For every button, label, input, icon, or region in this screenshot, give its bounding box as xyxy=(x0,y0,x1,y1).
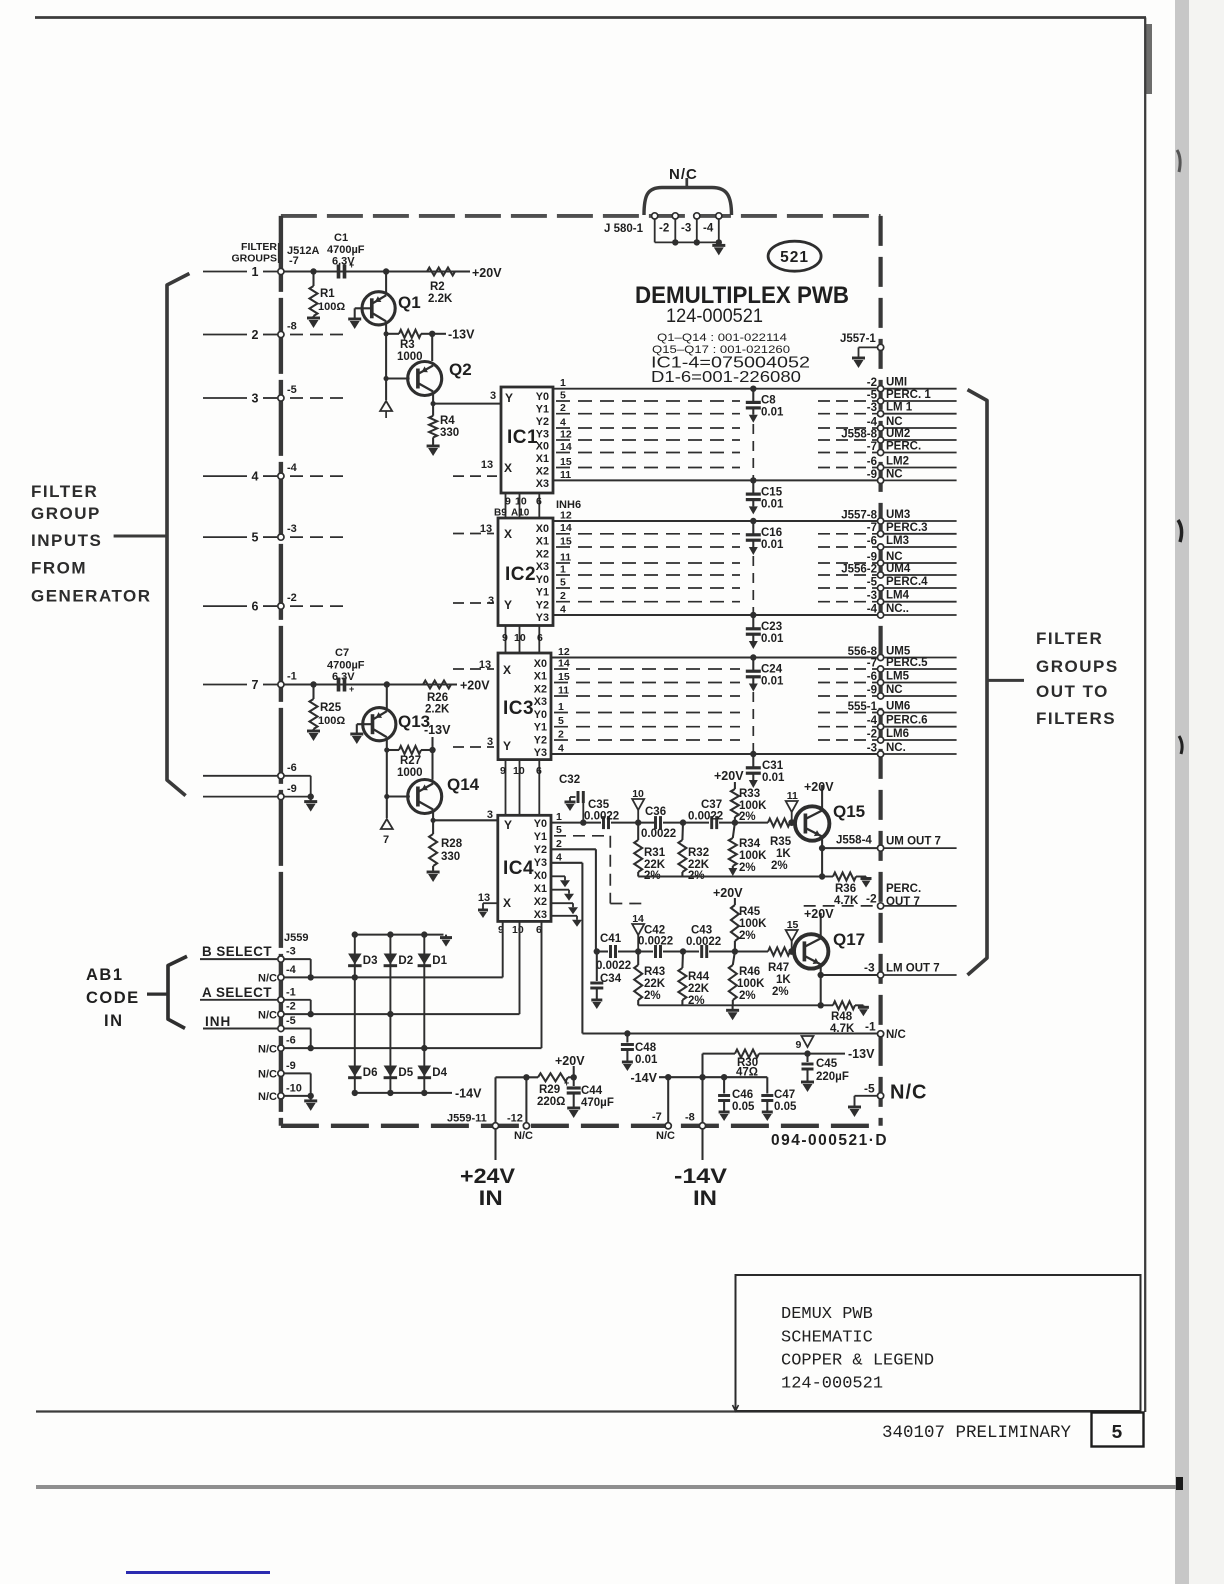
svg-text:D1: D1 xyxy=(432,955,447,967)
svg-text:+24V: +24V xyxy=(460,1165,515,1188)
svg-text:-9: -9 xyxy=(867,469,877,481)
svg-text:12: 12 xyxy=(560,510,572,522)
svg-text:521: 521 xyxy=(780,249,809,266)
svg-text:4: 4 xyxy=(560,417,566,429)
svg-text:R28: R28 xyxy=(441,838,463,850)
svg-text:X1: X1 xyxy=(536,536,549,548)
svg-text:1: 1 xyxy=(560,564,566,576)
svg-text:12: 12 xyxy=(558,646,570,658)
svg-text:330: 330 xyxy=(441,851,460,863)
svg-text:R27: R27 xyxy=(400,755,421,767)
svg-text:N/C: N/C xyxy=(890,1082,927,1104)
svg-text:C16: C16 xyxy=(761,527,782,539)
svg-text:D2: D2 xyxy=(398,955,413,967)
svg-text:J558-8: J558-8 xyxy=(841,429,877,441)
svg-text:-4: -4 xyxy=(867,715,878,727)
svg-text:COPPER & LEGEND: COPPER & LEGEND xyxy=(781,1352,934,1371)
svg-text:-1: -1 xyxy=(865,1020,876,1034)
svg-text:14: 14 xyxy=(560,522,572,534)
svg-text:C8: C8 xyxy=(761,395,776,407)
svg-text:X1: X1 xyxy=(536,453,549,465)
svg-text:0.01: 0.01 xyxy=(761,539,784,551)
svg-text:6: 6 xyxy=(537,632,543,644)
svg-text:Q2: Q2 xyxy=(449,360,472,379)
svg-text:1: 1 xyxy=(560,377,566,389)
svg-text:-1: -1 xyxy=(286,986,296,998)
svg-text:2: 2 xyxy=(560,402,566,414)
svg-text:5: 5 xyxy=(556,824,562,836)
svg-text:-3: -3 xyxy=(867,402,877,414)
svg-text:0.0022: 0.0022 xyxy=(584,811,619,823)
svg-text:R35: R35 xyxy=(770,836,792,848)
svg-text:X: X xyxy=(504,461,512,475)
svg-text:Y: Y xyxy=(503,739,511,753)
svg-text:330: 330 xyxy=(440,427,459,439)
svg-text:1: 1 xyxy=(252,265,259,279)
svg-text:J558-4: J558-4 xyxy=(836,835,872,847)
svg-text:7: 7 xyxy=(252,678,259,692)
svg-text:NC: NC xyxy=(886,416,903,428)
svg-text:220Ω: 220Ω xyxy=(537,1096,565,1108)
svg-text:Q1: Q1 xyxy=(398,293,421,312)
svg-text:-4: -4 xyxy=(867,604,878,616)
svg-text:C48: C48 xyxy=(635,1042,657,1054)
svg-text:-5: -5 xyxy=(864,1082,875,1096)
svg-text:9: 9 xyxy=(796,1039,802,1051)
svg-text:R3: R3 xyxy=(400,339,415,351)
svg-text:3: 3 xyxy=(252,392,259,406)
svg-text:100Ω: 100Ω xyxy=(318,301,345,313)
svg-text:J557-8: J557-8 xyxy=(841,510,877,522)
svg-text:12: 12 xyxy=(560,429,572,441)
svg-text:X: X xyxy=(503,896,511,910)
svg-text:13: 13 xyxy=(478,892,490,904)
svg-text:340107 PRELIMINARY: 340107 PRELIMINARY xyxy=(882,1423,1072,1443)
svg-text:PERC.5: PERC.5 xyxy=(886,657,928,669)
svg-text:PERC.3: PERC.3 xyxy=(886,522,928,534)
svg-text:LM3: LM3 xyxy=(886,535,909,547)
svg-text:4700µF: 4700µF xyxy=(327,244,365,256)
svg-text:-3: -3 xyxy=(867,743,877,755)
svg-text:-3: -3 xyxy=(681,223,691,235)
svg-text:C7: C7 xyxy=(335,647,349,659)
svg-text:X3: X3 xyxy=(534,696,547,708)
svg-text:14: 14 xyxy=(560,441,572,453)
svg-text:6: 6 xyxy=(536,765,542,777)
svg-text:C37: C37 xyxy=(701,799,722,811)
svg-text:C32: C32 xyxy=(559,774,580,786)
svg-text:Y0: Y0 xyxy=(536,391,549,403)
svg-text:+20V: +20V xyxy=(555,1054,585,1068)
svg-text:Y: Y xyxy=(504,598,512,612)
svg-text:-13V: -13V xyxy=(848,1047,875,1061)
svg-text:2: 2 xyxy=(560,590,566,602)
svg-text:Y0: Y0 xyxy=(536,574,549,586)
svg-text:14: 14 xyxy=(558,658,570,670)
svg-text:J512A: J512A xyxy=(287,245,319,257)
svg-text:-6: -6 xyxy=(287,762,297,774)
svg-text:2: 2 xyxy=(252,328,259,342)
svg-text:X1: X1 xyxy=(534,671,547,683)
svg-text:INH: INH xyxy=(205,1014,231,1029)
svg-text:470µF: 470µF xyxy=(581,1097,614,1109)
svg-text:100K: 100K xyxy=(737,978,765,990)
svg-text:R1: R1 xyxy=(320,288,335,300)
svg-text:X1: X1 xyxy=(534,883,547,895)
svg-text:-10: -10 xyxy=(286,1082,302,1094)
svg-text:DEMUX PWB: DEMUX PWB xyxy=(781,1305,873,1324)
svg-text:11: 11 xyxy=(787,790,798,802)
svg-text:X2: X2 xyxy=(534,683,547,695)
svg-text:PERC. 1: PERC. 1 xyxy=(886,389,931,401)
svg-text:2: 2 xyxy=(556,838,562,850)
svg-text:-5: -5 xyxy=(287,384,297,396)
svg-text:Y2: Y2 xyxy=(534,734,547,746)
svg-text:NC: NC xyxy=(886,684,903,696)
svg-text:15: 15 xyxy=(560,536,572,548)
svg-text:R45: R45 xyxy=(739,906,761,918)
svg-text:5: 5 xyxy=(560,390,566,402)
svg-text:-9: -9 xyxy=(286,1060,296,1072)
svg-text:0.0022: 0.0022 xyxy=(688,811,723,823)
svg-text:Y3: Y3 xyxy=(534,747,547,759)
svg-text:LM4: LM4 xyxy=(886,590,910,602)
svg-text:-4: -4 xyxy=(703,223,714,235)
svg-text:FILTER: FILTER xyxy=(241,241,277,253)
svg-text:2.2K: 2.2K xyxy=(428,293,453,305)
svg-text:9: 9 xyxy=(500,765,506,777)
svg-text:-7: -7 xyxy=(652,1111,662,1123)
svg-text:2: 2 xyxy=(558,729,564,741)
svg-text:X3: X3 xyxy=(536,561,549,573)
svg-text:10: 10 xyxy=(632,788,644,800)
svg-text:-5: -5 xyxy=(867,390,878,402)
svg-text:UM6: UM6 xyxy=(886,701,910,713)
svg-text:R46: R46 xyxy=(739,966,760,978)
svg-text:X3: X3 xyxy=(536,478,549,490)
svg-text:OUT TO: OUT TO xyxy=(1036,682,1109,701)
svg-text:N/C: N/C xyxy=(669,166,698,183)
svg-text:124-000521: 124-000521 xyxy=(781,1375,883,1394)
svg-text:-2: -2 xyxy=(867,729,877,741)
svg-text:-9: -9 xyxy=(287,783,297,795)
svg-text:C35: C35 xyxy=(588,799,610,811)
svg-text:2%: 2% xyxy=(772,986,789,998)
svg-text:0.0022: 0.0022 xyxy=(638,936,673,948)
svg-text:-3: -3 xyxy=(286,946,296,958)
svg-text:-9: -9 xyxy=(867,552,877,564)
svg-text:X0: X0 xyxy=(534,870,547,882)
svg-text:-6: -6 xyxy=(867,456,877,468)
svg-text:-14V: -14V xyxy=(674,1165,727,1188)
svg-text:Y3: Y3 xyxy=(536,612,549,624)
svg-text:N/C: N/C xyxy=(258,1091,277,1103)
svg-text:-12: -12 xyxy=(507,1113,523,1125)
svg-text:4: 4 xyxy=(558,743,564,755)
svg-text:IN: IN xyxy=(479,1187,503,1210)
svg-text:-5: -5 xyxy=(286,1015,296,1027)
svg-text:+: + xyxy=(564,1078,569,1088)
svg-text:R48: R48 xyxy=(831,1011,853,1023)
svg-text:-8: -8 xyxy=(287,321,297,333)
svg-text:094-000521·D: 094-000521·D xyxy=(771,1132,888,1149)
svg-text:2%: 2% xyxy=(739,811,756,823)
svg-text:PERC.: PERC. xyxy=(886,441,921,453)
svg-text:22K: 22K xyxy=(644,978,666,990)
svg-text:B SELECT: B SELECT xyxy=(202,944,272,959)
svg-text:-2: -2 xyxy=(867,377,877,389)
svg-text:R26: R26 xyxy=(427,692,448,704)
svg-text:IC3: IC3 xyxy=(503,698,534,719)
svg-text:5: 5 xyxy=(560,577,566,589)
svg-text:Y: Y xyxy=(504,818,512,832)
svg-text:J557-1: J557-1 xyxy=(840,333,876,345)
svg-text:-7: -7 xyxy=(867,658,877,670)
svg-text:4: 4 xyxy=(252,470,259,484)
svg-text:556-8: 556-8 xyxy=(848,646,878,658)
svg-text:13: 13 xyxy=(480,523,492,535)
svg-text:2%: 2% xyxy=(739,990,756,1002)
svg-text:-14V: -14V xyxy=(455,1087,482,1101)
svg-text:13: 13 xyxy=(481,459,493,471)
svg-text:R29: R29 xyxy=(539,1084,560,1096)
svg-text:LM2: LM2 xyxy=(886,456,909,468)
svg-text:+20V: +20V xyxy=(472,266,502,280)
svg-text:+20V: +20V xyxy=(714,769,744,783)
svg-text:R47: R47 xyxy=(768,962,789,974)
svg-text:-9: -9 xyxy=(867,685,877,697)
svg-text:D3: D3 xyxy=(363,955,378,967)
svg-text:GROUP: GROUP xyxy=(31,504,101,523)
svg-text:NC: NC xyxy=(886,468,903,480)
svg-text:N/C: N/C xyxy=(258,1069,277,1081)
svg-text:C47: C47 xyxy=(774,1089,795,1101)
svg-text:-2: -2 xyxy=(286,1001,296,1013)
svg-text:SCHEMATIC: SCHEMATIC xyxy=(781,1329,873,1348)
svg-text:A SELECT: A SELECT xyxy=(202,985,272,1000)
svg-text:0.0022: 0.0022 xyxy=(641,828,676,840)
svg-text:FILTERS: FILTERS xyxy=(1036,709,1116,728)
svg-text:R36: R36 xyxy=(835,883,856,895)
svg-text:X3: X3 xyxy=(534,909,547,921)
svg-text:0.05: 0.05 xyxy=(732,1101,755,1113)
svg-text:Y1: Y1 xyxy=(536,587,549,599)
svg-text:OUT 7: OUT 7 xyxy=(886,896,920,908)
svg-text:UM4: UM4 xyxy=(886,563,911,575)
svg-text:J559-11: J559-11 xyxy=(447,1113,487,1125)
svg-text:D4: D4 xyxy=(432,1067,447,1079)
svg-text:10: 10 xyxy=(515,496,527,508)
svg-text:Y1: Y1 xyxy=(534,722,547,734)
svg-text:9: 9 xyxy=(505,496,511,508)
svg-text:1K: 1K xyxy=(776,974,791,986)
svg-text:FILTER: FILTER xyxy=(31,482,98,501)
svg-text:3: 3 xyxy=(490,390,496,402)
svg-text:+: + xyxy=(349,260,354,270)
svg-text:3: 3 xyxy=(487,809,493,821)
svg-text:Y0: Y0 xyxy=(534,818,547,830)
svg-text:C23: C23 xyxy=(761,621,782,633)
svg-text:+: + xyxy=(349,684,354,694)
svg-text:B9: B9 xyxy=(494,508,507,519)
svg-text:100K: 100K xyxy=(739,850,767,862)
svg-text:5: 5 xyxy=(558,715,564,727)
svg-text:Y2: Y2 xyxy=(536,599,549,611)
svg-text:C1: C1 xyxy=(334,232,348,244)
svg-text:2%: 2% xyxy=(644,990,661,1002)
svg-text:47Ω: 47Ω xyxy=(736,1067,758,1079)
svg-text:5: 5 xyxy=(252,531,259,545)
svg-text:IC4: IC4 xyxy=(503,858,534,879)
svg-text:-7: -7 xyxy=(867,522,877,534)
svg-text:13: 13 xyxy=(479,659,491,671)
svg-text:R2: R2 xyxy=(430,281,445,293)
svg-text:GROUPS: GROUPS xyxy=(1036,657,1119,676)
svg-text:5: 5 xyxy=(1111,1422,1122,1444)
svg-text:-6: -6 xyxy=(867,671,877,683)
svg-text:2%: 2% xyxy=(771,860,788,872)
svg-text:3: 3 xyxy=(487,736,493,748)
svg-text:J 580-1: J 580-1 xyxy=(604,223,644,235)
svg-text:0.0022: 0.0022 xyxy=(596,960,631,972)
svg-text:LM OUT 7: LM OUT 7 xyxy=(886,963,940,975)
svg-text:Y3: Y3 xyxy=(536,428,549,440)
svg-text:Y0: Y0 xyxy=(534,709,547,721)
svg-text:IN: IN xyxy=(693,1187,717,1210)
svg-text:LM6: LM6 xyxy=(886,728,909,740)
svg-text:10: 10 xyxy=(513,765,525,777)
svg-text:Y1: Y1 xyxy=(534,831,547,843)
svg-text:11: 11 xyxy=(560,469,571,481)
svg-text:Y2: Y2 xyxy=(536,416,549,428)
svg-text:10: 10 xyxy=(512,924,524,936)
svg-text:C24: C24 xyxy=(761,664,783,676)
svg-text:D6: D6 xyxy=(363,1067,378,1079)
svg-text:0.01: 0.01 xyxy=(761,498,784,510)
svg-text:10: 10 xyxy=(514,632,526,644)
svg-text:FROM: FROM xyxy=(31,559,87,578)
svg-text:NC: NC xyxy=(886,551,903,563)
svg-text:0.01: 0.01 xyxy=(761,676,784,688)
svg-text:-4: -4 xyxy=(286,964,297,976)
svg-text:NC.: NC. xyxy=(886,742,906,754)
svg-text:UM3: UM3 xyxy=(886,509,910,521)
svg-text:+20V: +20V xyxy=(460,679,490,693)
svg-text:2%: 2% xyxy=(739,862,756,874)
svg-text:X2: X2 xyxy=(536,548,549,560)
svg-text:D5: D5 xyxy=(398,1067,413,1079)
svg-text:C41: C41 xyxy=(600,933,622,945)
svg-text:J559: J559 xyxy=(284,932,308,944)
svg-text:R31: R31 xyxy=(644,847,666,859)
svg-text:-3: -3 xyxy=(287,523,297,535)
svg-text:Y2: Y2 xyxy=(534,844,547,856)
svg-text:1: 1 xyxy=(556,811,562,823)
svg-text:X2: X2 xyxy=(536,466,549,478)
svg-text:R43: R43 xyxy=(644,966,665,978)
svg-text:GENERATOR: GENERATOR xyxy=(31,587,152,606)
svg-text:NC..: NC.. xyxy=(886,603,909,615)
svg-text:Y3: Y3 xyxy=(534,857,547,869)
svg-text:4700µF: 4700µF xyxy=(327,660,365,672)
svg-text:X2: X2 xyxy=(534,896,547,908)
svg-text:C46: C46 xyxy=(732,1089,753,1101)
svg-text:6: 6 xyxy=(536,496,542,508)
svg-text:CODE: CODE xyxy=(86,989,140,1007)
svg-text:D1-6=001-226080: D1-6=001-226080 xyxy=(651,369,801,386)
svg-text:+20V: +20V xyxy=(713,886,743,900)
svg-text:R34: R34 xyxy=(739,838,761,850)
svg-text:AB1: AB1 xyxy=(86,966,124,984)
svg-text:-14V: -14V xyxy=(631,1071,658,1085)
svg-text:22K: 22K xyxy=(688,983,710,995)
svg-text:220µF: 220µF xyxy=(816,1071,849,1083)
svg-text:X0: X0 xyxy=(536,523,549,535)
svg-text:1: 1 xyxy=(558,701,564,713)
svg-text:100K: 100K xyxy=(739,918,767,930)
svg-text:R4: R4 xyxy=(440,415,455,427)
svg-text:J556-2: J556-2 xyxy=(841,564,877,576)
svg-text:0.01: 0.01 xyxy=(762,772,785,784)
svg-text:PERC.4: PERC.4 xyxy=(886,576,928,588)
svg-text:-3: -3 xyxy=(864,961,875,975)
svg-text:Q15: Q15 xyxy=(833,802,865,821)
svg-text:X: X xyxy=(504,527,512,541)
svg-text:PERC.6: PERC.6 xyxy=(886,715,928,727)
svg-text:-13V: -13V xyxy=(424,723,451,737)
svg-text:124-000521: 124-000521 xyxy=(666,305,763,327)
svg-text:+20V: +20V xyxy=(804,780,834,794)
svg-text:-2: -2 xyxy=(866,892,877,906)
svg-text:-1: -1 xyxy=(287,671,297,683)
svg-text:15: 15 xyxy=(787,919,799,931)
svg-text:9: 9 xyxy=(502,632,508,644)
svg-text:3: 3 xyxy=(488,595,494,607)
svg-text:Y: Y xyxy=(505,391,513,405)
svg-text:4: 4 xyxy=(556,852,562,864)
svg-text:-2: -2 xyxy=(287,592,297,604)
svg-text:+20V: +20V xyxy=(804,907,834,921)
svg-text:-6: -6 xyxy=(286,1035,296,1047)
svg-text:-13V: -13V xyxy=(448,328,475,342)
svg-text:UM OUT 7: UM OUT 7 xyxy=(886,836,941,848)
svg-text:-4: -4 xyxy=(867,417,878,429)
svg-text:11: 11 xyxy=(560,552,571,564)
svg-text:-4: -4 xyxy=(287,462,298,474)
svg-text:-7: -7 xyxy=(867,441,877,453)
svg-text:N/C: N/C xyxy=(258,1010,277,1022)
svg-text:555-1: 555-1 xyxy=(848,701,878,713)
svg-text:R25: R25 xyxy=(320,702,342,714)
svg-text:X: X xyxy=(503,663,511,677)
svg-text:IC1: IC1 xyxy=(507,427,538,448)
svg-text:-6: -6 xyxy=(867,536,877,548)
svg-text:Q17: Q17 xyxy=(833,930,865,949)
svg-text:IC2: IC2 xyxy=(505,564,536,585)
svg-text:1K: 1K xyxy=(776,848,791,860)
svg-text:11: 11 xyxy=(558,685,569,697)
svg-text:15: 15 xyxy=(558,671,570,683)
svg-text:0.01: 0.01 xyxy=(761,407,784,419)
svg-text:R32: R32 xyxy=(688,847,709,859)
svg-text:LM5: LM5 xyxy=(886,671,910,683)
svg-text:N/C: N/C xyxy=(514,1130,533,1142)
svg-text:UMI: UMI xyxy=(886,377,907,389)
svg-text:0.0022: 0.0022 xyxy=(686,936,721,948)
svg-text:C34: C34 xyxy=(600,973,622,985)
svg-text:PERC.: PERC. xyxy=(886,883,921,895)
svg-text:0.01: 0.01 xyxy=(761,633,784,645)
